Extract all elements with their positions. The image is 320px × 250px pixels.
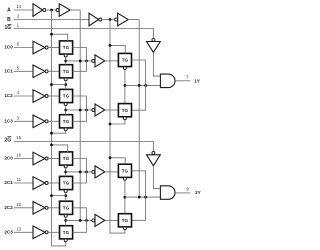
node col2 data merge [144, 196, 147, 199]
svg-text:1C3: 1C3 [4, 119, 13, 124]
svg-text:14: 14 [16, 4, 21, 9]
node A tap [79, 60, 82, 63]
wire to TG5s input [105, 60, 119, 62]
control bubble TG8 [64, 239, 67, 242]
inverter U1A (A) [33, 4, 43, 17]
wire control chain TG3-TG4 [65, 106, 67, 115]
svg-text:15: 15 [16, 135, 21, 140]
wire 2C3 input [14, 231, 33, 233]
node chain/merge tap [64, 60, 67, 63]
buffer 1C3 [33, 115, 45, 128]
svg-text:12: 12 [16, 202, 21, 207]
control bubble TG7s [123, 177, 126, 180]
buffer 2C2 [33, 202, 45, 215]
node on A-bar [50, 132, 53, 135]
inverter U5 (pair2 merge) [92, 109, 95, 112]
wire TG5 top control branch from A-bar [52, 145, 68, 152]
wire control chain TG6-TG7 [65, 193, 67, 202]
wire A vertical [79, 10, 81, 220]
node chain/merge tap [64, 219, 67, 222]
node data merge pair2 [85, 109, 88, 112]
wire 1C1 input [14, 70, 33, 72]
wire 1G to enable inverter [14, 29, 153, 39]
node A tap [79, 109, 82, 112]
wire 1C2 input [14, 95, 33, 97]
control bubble TG6s [123, 117, 126, 120]
wire merge line pair 2C0/2C1 [66, 171, 92, 173]
control bubble TG1 [64, 54, 67, 57]
transmission gate TG7 [60, 201, 73, 214]
wire to TG6s input [105, 109, 119, 111]
svg-text:11: 11 [17, 177, 22, 182]
wire TG6s control tap to B-bar [110, 120, 125, 124]
svg-text:1Y: 1Y [194, 79, 200, 84]
svg-text:2C1: 2C1 [4, 180, 13, 185]
wire to TG8s input [105, 219, 119, 221]
node data merge pair1 [85, 60, 88, 63]
svg-text:10: 10 [16, 153, 21, 158]
wire merge line pair 2C2/2C3 [66, 219, 92, 221]
buffer 1C0 [33, 41, 45, 54]
inverter U4 (pair1 merge) [92, 59, 95, 62]
svg-text:TG: TG [63, 230, 70, 235]
transmission gate TG5s (stage2) [118, 53, 131, 66]
node B-bar junction [109, 18, 112, 21]
svg-text:1C2: 1C2 [4, 93, 13, 98]
svg-text:2G: 2G [5, 137, 12, 143]
node chain on AND1 line [124, 84, 127, 87]
node on A-bar [50, 144, 53, 147]
wire [70, 9, 80, 11]
wire to TG7s input [105, 171, 119, 173]
inverter U8 (pair4 merge) [92, 219, 95, 222]
wire [102, 19, 114, 21]
node chain/merge tap [64, 109, 67, 112]
wire B input [14, 19, 89, 21]
wire [48, 70, 59, 72]
wire AND1 data line [125, 84, 160, 86]
transmission gate TG6 [60, 176, 73, 189]
svg-text:TG: TG [63, 156, 70, 161]
node B tap (B select end) [138, 196, 141, 199]
node on B-bar [109, 156, 112, 159]
inverter U6 (2G enable) [152, 152, 155, 155]
node data merge pair3 [85, 171, 88, 174]
wire A-bar vertical [51, 10, 53, 246]
wire tap to A-bar [52, 195, 66, 197]
wire [48, 182, 59, 184]
transmission gate TG5 [60, 152, 73, 165]
wire TG2 output [73, 61, 87, 71]
buffer 2C3 [33, 226, 45, 239]
wire TG3 output [73, 96, 87, 110]
wire control chain TG5-TG6 [65, 168, 67, 176]
wire [48, 231, 59, 233]
wire TG1 top control branch from A-bar [52, 34, 68, 41]
svg-text:TG: TG [63, 205, 70, 210]
wire enable to AND1 [153, 52, 160, 76]
wire control chain TG5s-TG6s [124, 70, 126, 104]
node chain on AND2 line [124, 196, 127, 199]
wire [48, 120, 59, 122]
wire enable to AND2 [153, 166, 160, 189]
node A-bar junction [50, 9, 53, 12]
node chain/merge tap [64, 171, 67, 174]
wire TG8 control tap to A-bar end [52, 242, 66, 246]
svg-text:TG: TG [122, 58, 129, 63]
wire A input [14, 9, 33, 11]
wire TG5s top control from B-bar [110, 45, 125, 53]
wire TG1 output [73, 48, 87, 61]
wire B-bar vertical [109, 20, 111, 234]
wire [46, 9, 58, 11]
wire merge line pair 1C2/1C3 [66, 109, 92, 111]
svg-text:13: 13 [16, 227, 21, 232]
wire TG4 control tap [52, 131, 66, 133]
svg-text:1C1: 1C1 [4, 69, 13, 74]
wire 2Y output [175, 192, 190, 194]
wire TG8s control tap to B-bar end [110, 230, 125, 233]
and-gate 2Y output [160, 186, 175, 200]
node chain tap left [64, 83, 67, 86]
buffer 2C1 [33, 177, 45, 190]
transmission gate TG1 [60, 41, 73, 54]
node on A-bar [50, 83, 53, 86]
wire TG5 output [73, 159, 87, 172]
buffer 2C0 [33, 152, 45, 165]
wire control chain TG7-TG8 [65, 217, 67, 225]
and-gate 1Y output [160, 74, 175, 88]
wire B vertical [138, 20, 140, 198]
wire TG7s output [131, 171, 145, 197]
wire tap to A-bar [52, 84, 66, 86]
wire TG5s output [131, 60, 145, 85]
node A tap (A select end) [79, 219, 82, 222]
svg-text:2C2: 2C2 [4, 205, 13, 210]
svg-text:B: B [7, 17, 11, 23]
svg-text:1G: 1G [5, 25, 12, 31]
wire TG6s output [131, 85, 145, 110]
control bubble TG8s [123, 227, 126, 230]
svg-text:A: A [7, 8, 11, 14]
wire merge line pair 1C0/1C1 [66, 60, 92, 62]
svg-text:1C0: 1C0 [4, 45, 13, 50]
svg-text:2Y: 2Y [195, 190, 201, 195]
node A tap [79, 171, 82, 174]
transmission gate TG3 [60, 89, 73, 102]
buffer 1C1 [33, 65, 45, 78]
wire 1C3 input [14, 120, 33, 122]
transmission gate TG4 [60, 115, 73, 128]
svg-text:TG: TG [63, 69, 70, 74]
wire 2G to enable inverter [14, 142, 153, 152]
wire [48, 158, 59, 160]
wire TG8s output [131, 197, 145, 220]
wire control chain TG1-TG2 [65, 57, 67, 65]
control bubble TG5s [123, 67, 126, 70]
transmission gate TG8 [60, 226, 73, 239]
wire TG8 output [73, 220, 87, 232]
transmission gate TG7s (stage2) [118, 164, 131, 177]
node on A-bar [50, 194, 53, 197]
node data merge pair4 [85, 219, 88, 222]
control bubble TG2 [64, 78, 67, 81]
wire [48, 47, 59, 49]
node on B-bar [109, 44, 112, 47]
buffer 1C2 [33, 90, 45, 103]
wire 1Y output [175, 80, 190, 82]
svg-text:TG: TG [63, 94, 70, 99]
transmission gate TG2 [60, 65, 73, 78]
svg-text:TG: TG [63, 181, 70, 186]
control bubble TG3 [64, 103, 67, 106]
wire 2C0 input [14, 158, 33, 160]
wire 2C1 input [14, 182, 33, 184]
transmission gate TG8s (stage2) [118, 214, 131, 227]
wire [128, 19, 139, 21]
svg-text:2C3: 2C3 [4, 230, 13, 235]
control bubble TG7 [64, 214, 67, 217]
wire TG7s top control from B-bar [110, 158, 125, 164]
svg-text:TG: TG [63, 45, 70, 50]
inverter U3 (1G enable) [152, 38, 155, 41]
wire control chain TG2-TG3 [65, 81, 67, 90]
inverter U2A (B) [89, 13, 99, 26]
control bubble TG6 [64, 190, 67, 193]
wire TG7 output [73, 208, 87, 221]
node on A-bar [50, 33, 53, 36]
control bubble TG4 [64, 128, 67, 131]
wire 2C2 input [14, 207, 33, 209]
node chain tap left [64, 194, 67, 197]
node on B-bar [109, 123, 112, 126]
buffer U2B (B) [115, 18, 118, 21]
svg-text:TG: TG [63, 119, 70, 124]
wire control chain TG7s-TG8s [124, 180, 126, 213]
node B tap [138, 84, 141, 87]
buffer U1B (A) [56, 9, 59, 12]
control bubble TG5 [64, 165, 67, 168]
svg-text:2C0: 2C0 [4, 156, 13, 161]
node col2 data merge [144, 84, 147, 87]
wire 1C0 input [14, 47, 33, 49]
transmission gate TG6s (stage2) [118, 104, 131, 117]
wire TG4 output [73, 110, 87, 121]
wire [48, 207, 59, 209]
inverter U7 (pair3 merge) [92, 170, 95, 173]
svg-text:TG: TG [122, 168, 129, 173]
svg-text:TG: TG [122, 108, 129, 113]
wire [48, 95, 59, 97]
wire TG6 output [73, 172, 87, 183]
svg-text:TG: TG [122, 218, 129, 223]
wire AND2 data line [125, 196, 160, 198]
